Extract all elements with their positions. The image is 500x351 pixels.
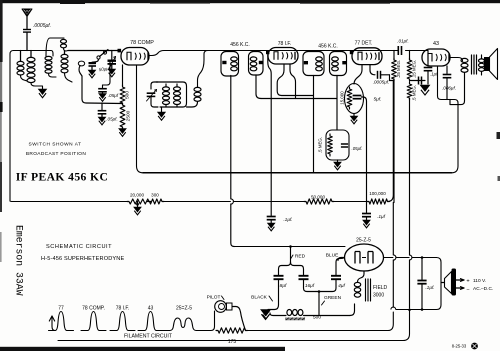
wire rect output corner down (412, 258, 441, 310)
IF2 primary can (303, 52, 324, 173)
junction rect output hop (410, 255, 412, 260)
ground antenna coil (38, 89, 46, 98)
svg-text:.006μf.: .006μf. (442, 86, 456, 91)
resistor 500 bias (120, 85, 130, 105)
cathode oval 77 (345, 84, 364, 114)
wire 43 grid cap drop (427, 51, 429, 64)
capacitor .05uf screen (98, 111, 118, 122)
svg-text:.1μf: .1μf (377, 214, 386, 220)
svg-text:2500: 2500 (126, 110, 132, 121)
capacitor .1uf detector plate (362, 214, 386, 221)
svg-text:BLACK: BLACK (251, 295, 268, 301)
svg-text:−: − (466, 287, 469, 293)
wire 78COMP pin to 500 (122, 65, 124, 86)
svg-text:Emerson 33AW: Emerson 33AW (14, 225, 25, 296)
IF1 secondary can (249, 52, 264, 99)
wire main plate bus (208, 50, 428, 52)
wire 78COMP plate to bus (149, 51, 208, 57)
svg-text:43: 43 (433, 41, 439, 47)
svg-text:3000: 3000 (373, 293, 384, 299)
svg-text:.1μf.: .1μf. (425, 285, 434, 291)
wire trimmer top (111, 51, 113, 60)
capacitor .1uf line (417, 258, 434, 310)
svg-text:BLUE: BLUE (326, 253, 339, 259)
svg-text:RED: RED (295, 254, 306, 260)
ground humbucking (262, 310, 270, 319)
ground .05uf screen (98, 117, 106, 125)
tube 43 output (422, 49, 450, 66)
filament heater 25-Z-5 (161, 306, 204, 331)
wire .5meg long drop (409, 98, 411, 308)
label 456 K.C. first IF (230, 42, 249, 48)
svg-text:.01μf.: .01μf. (397, 39, 408, 44)
wire rect left pin (336, 258, 345, 261)
wire .25meg2 to cap (410, 80, 426, 82)
label IF PEAK 456 KC (16, 171, 108, 184)
wire filament return left corner (52, 331, 58, 341)
wire blue riser (336, 258, 345, 263)
oscillator tank coil assembly (156, 82, 187, 107)
label and heater 78 COMP (81, 306, 106, 331)
wire red drop (279, 247, 304, 276)
svg-text:43: 43 (148, 306, 154, 312)
svg-text:BROADCAST POSITION: BROADCAST POSITION (26, 151, 87, 157)
wire black to ground (268, 305, 279, 310)
humbucking coil 500 (270, 310, 350, 321)
capacitor .1uf 43 grid (424, 51, 438, 85)
speaker voice coil and cone (484, 49, 498, 80)
wire osc tank ground stem (161, 107, 163, 112)
wire 78IF grid drop (268, 54, 271, 215)
svg-text:78 I.F.: 78 I.F. (116, 306, 130, 312)
resistor .25 MEG first (392, 51, 401, 82)
wire B- bus (143, 172, 452, 174)
pilot lamp (207, 295, 232, 313)
capacitor 4uf electrolytic (331, 262, 345, 289)
label 25-Z-5 (356, 238, 371, 244)
svg-text:456 K.C.: 456 K.C. (230, 42, 249, 48)
wire screen cap stem (101, 103, 103, 111)
wire filament line right (246, 312, 394, 331)
wire B+ top (234, 246, 345, 248)
wire filament left arrow (49, 316, 55, 331)
svg-text:.5 MEG.: .5 MEG. (412, 85, 417, 101)
capacitor .05uf grid (341, 144, 363, 151)
capacitor 5uf cathode (353, 96, 382, 213)
wire filament return bottom (58, 309, 411, 341)
page edge artifact bottom-left bar (0, 347, 285, 351)
svg-text:.05μf.: .05μf. (352, 146, 363, 151)
svg-text:SWITCH SHOWN AT: SWITCH SHOWN AT (29, 142, 82, 148)
svg-text:100,000: 100,000 (369, 191, 386, 196)
ground .1uf avc (267, 223, 275, 231)
wire coil to field (350, 304, 355, 316)
svg-text:8-25-33: 8-25-33 (452, 344, 467, 349)
wire 78IF screen pin (290, 64, 296, 99)
ground padder (88, 70, 96, 78)
svg-text:500: 500 (125, 91, 131, 99)
label 78 COMP (130, 40, 154, 46)
resistor .25 MEG second (407, 51, 416, 82)
wire link drop to junction (82, 76, 123, 104)
label schematic circuit (41, 244, 124, 262)
page edge artifact left strip (0, 0, 3, 262)
output transformer secondary (479, 55, 485, 75)
ground .1uf det (363, 220, 371, 228)
svg-text:.25 MEG.: .25 MEG. (412, 60, 417, 79)
resistor .5 MEG output grid (407, 82, 416, 101)
oscillator small link coil (60, 38, 68, 51)
grid cap square 77 (350, 51, 353, 54)
label 78 I.F. (278, 41, 292, 47)
label 77 DET. (355, 40, 373, 46)
wire filament baseline to pilot (204, 311, 215, 331)
svg-text:15,000: 15,000 (340, 91, 345, 105)
grid cap square 78COMP (118, 49, 122, 53)
wire rect output (384, 257, 437, 259)
svg-text:GREEN: GREEN (324, 295, 342, 301)
AC plug (441, 269, 493, 296)
svg-text:77 DET.: 77 DET. (355, 40, 373, 46)
capacitor 8uf electrolytic (274, 276, 287, 305)
capacitor .006uf tone (442, 66, 456, 100)
oscillator grid coil L4 (61, 51, 72, 82)
wire 4uf bottom (316, 288, 336, 292)
svg-text:+: + (466, 279, 469, 285)
svg-text:25-Z-5: 25-Z-5 (356, 238, 371, 244)
ground trimmer (108, 69, 116, 77)
wire 77 cathode to oval (354, 65, 362, 84)
svg-text:.05μf: .05μf (108, 93, 119, 98)
ground chassis black (261, 307, 271, 320)
capacitor 16uf electrolytic (299, 276, 315, 289)
wire rect bottom to field (358, 271, 365, 282)
svg-text:78 COMP: 78 COMP (130, 40, 154, 46)
tube 78 I.F. amplifier (268, 48, 298, 65)
svg-text:500: 500 (313, 315, 321, 321)
label Emerson 33AW (14, 225, 25, 296)
svg-text:.5 MEG.: .5 MEG. (318, 137, 323, 153)
svg-text:FIELD: FIELD (373, 285, 388, 291)
wire 100000 corner up (388, 81, 394, 202)
trimmer capacitor 50uuf (98, 57, 116, 73)
filament heater 43 (138, 306, 163, 331)
wire AVC bottom bus (10, 200, 368, 203)
capacitor .1uf det (419, 77, 422, 85)
grid cap square 78IF (266, 51, 269, 54)
label GREEN (322, 295, 342, 305)
resistor 2500 screen (120, 103, 131, 129)
field coil 3000 (354, 279, 387, 304)
svg-text:50,000: 50,000 (311, 194, 325, 199)
link loop small (78, 61, 84, 76)
wire grid bus to 78COMP (68, 50, 118, 52)
wire 78COMP cathode pin (103, 62, 111, 88)
IF1 primary can (221, 52, 239, 77)
capacitor .0005uf antenna series (23, 23, 51, 51)
svg-text:456 K.C.: 456 K.C. (318, 44, 337, 50)
wire switch drop (92, 59, 99, 62)
resistor 15000 (340, 87, 352, 109)
variable capacitor C osc (147, 82, 159, 107)
capacitor .05uf cathode (98, 89, 119, 98)
output transformer core (472, 55, 477, 74)
wire pilot right drop (232, 307, 246, 331)
page edge artifact right tick (497, 132, 500, 181)
junction dots power (289, 245, 423, 311)
svg-text:77: 77 (58, 306, 64, 312)
svg-text:300: 300 (151, 192, 159, 197)
wire speaker return bus (391, 307, 413, 309)
svg-text:8μf: 8μf (280, 283, 287, 289)
switch S1 wave band (97, 50, 108, 60)
svg-text:78 I.F.: 78 I.F. (278, 41, 292, 47)
oscillator coupling assembly outline (46, 38, 62, 79)
filament heater 77 (49, 306, 74, 331)
svg-text:FILAMENT CIRCUIT: FILAMENT CIRCUIT (124, 334, 173, 340)
capacitor .1uf avc (267, 217, 293, 224)
IF2 secondary can (330, 52, 347, 81)
label 456 K.C. second IF (318, 44, 337, 50)
padder capacitor fixed (89, 62, 97, 70)
ground 2500 (119, 127, 127, 136)
wire junction x366 drop (366, 202, 368, 213)
ground .05uf cathode (99, 94, 107, 102)
antenna coil L2 secondary (27, 51, 43, 90)
ground 43 grid (420, 85, 430, 95)
svg-text:4μf: 4μf (338, 283, 345, 289)
wire pilot left junction (214, 311, 216, 331)
label date code (452, 343, 478, 350)
output transformer primary (447, 58, 468, 105)
svg-text:IF PEAK 456 KC: IF PEAK 456 KC (16, 171, 108, 184)
wire 43 cathode drop (438, 66, 459, 173)
wire antenna coil top edge (10, 51, 51, 202)
wire 43 plate to transformer (450, 58, 463, 62)
resistor 300 (148, 192, 165, 204)
svg-text:5μf.: 5μf. (374, 97, 382, 103)
svg-text:PILOT: PILOT (207, 295, 221, 301)
page edge artifact top bar (0, 0, 500, 4)
resistor 100000 (367, 191, 390, 204)
svg-text:.25 MEG.: .25 MEG. (396, 60, 401, 79)
resistor .5 MEG grid leak (318, 130, 350, 160)
svg-text:110 V.: 110 V. (473, 278, 486, 284)
wire green drop (318, 292, 320, 316)
wire x393 vertical upper (393, 203, 396, 308)
svg-text:175: 175 (228, 339, 237, 345)
tube 25-Z-5 rectifier (345, 244, 384, 271)
resistor 175 ballast (216, 328, 248, 345)
wire .25meg1 junction (390, 79, 395, 203)
svg-text:.0005μf.: .0005μf. (373, 80, 390, 85)
wire avc line (261, 98, 337, 100)
svg-text:AC.–D.C.: AC.–D.C. (473, 286, 493, 292)
tube 77 detector (352, 48, 382, 65)
capacitor .0005uf (373, 71, 390, 85)
antenna (22, 9, 32, 29)
resistor 20000 (127, 192, 151, 204)
wire IF2 sec to grid leak (336, 76, 338, 131)
wire B- bus lower echo (230, 174, 232, 176)
wire plate load drop (389, 75, 391, 81)
wire 16uf bottom (304, 288, 317, 292)
wire AVC bus left vertical (9, 200, 11, 203)
label 43 (433, 41, 439, 47)
resistor 50000 (304, 194, 334, 204)
svg-text:78 COMP.: 78 COMP. (82, 306, 105, 312)
svg-text:20,000: 20,000 (130, 192, 144, 197)
oscillator tickler coil (187, 51, 209, 108)
ground 20000 (134, 202, 142, 215)
ground 15000 (350, 114, 358, 124)
label BLUE (326, 253, 339, 259)
svg-text:25=Z-5: 25=Z-5 (176, 306, 192, 312)
svg-text:H-5-456 SUPERHETERODYNE: H-5-456 SUPERHETERODYNE (41, 256, 124, 262)
svg-text:.0005μf.: .0005μf. (33, 23, 51, 29)
antenna coil L1 primary (17, 51, 27, 82)
label FILAMENT CIRCUIT (124, 334, 173, 340)
ground oscillator tank (158, 112, 166, 120)
svg-text:.1μf: .1μf (430, 72, 438, 77)
wire 78IF cathode pin (277, 64, 313, 96)
label switch note (26, 142, 87, 158)
ground grid leak (334, 160, 342, 170)
oscillator pickup coil L3 (45, 51, 57, 78)
svg-text:.1μf.: .1μf. (283, 217, 292, 223)
wire long vertical x230 (231, 76, 235, 247)
label BLACK (251, 295, 272, 302)
svg-text:16μf: 16μf (305, 283, 315, 289)
wire 77 pin to .0005 (370, 65, 375, 75)
label RED (291, 254, 306, 260)
filament heater 78 IF (110, 306, 135, 331)
capacitor .01uf coupling (397, 39, 408, 55)
tube 78 COMP first detector (121, 48, 149, 66)
svg-text:.05μf.: .05μf. (106, 117, 117, 122)
wire 78COMP cathode to bus (137, 65, 144, 173)
svg-text:SCHEMATIC CIRCUIT: SCHEMATIC CIRCUIT (46, 244, 112, 250)
